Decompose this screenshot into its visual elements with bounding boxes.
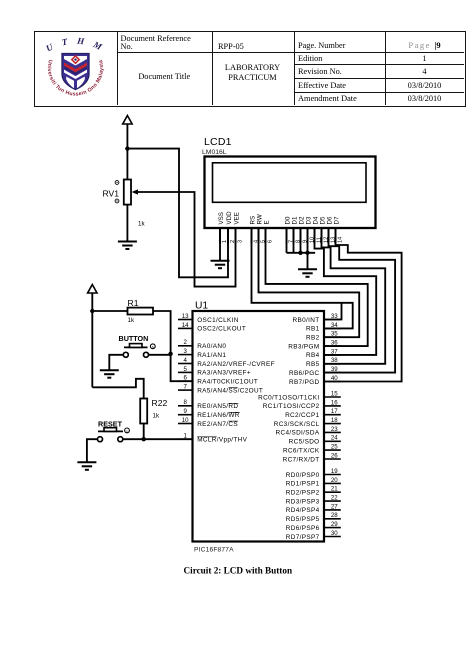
svg-text:RB1: RB1 bbox=[306, 326, 320, 333]
svg-text:RE2/AN7/CS: RE2/AN7/CS bbox=[197, 421, 238, 428]
svg-text:6: 6 bbox=[184, 375, 188, 382]
svg-text:38: 38 bbox=[331, 357, 338, 364]
svg-text:RB3/PGM: RB3/PGM bbox=[288, 343, 319, 350]
svg-text:LM016L: LM016L bbox=[202, 149, 227, 156]
svg-text:D0: D0 bbox=[284, 216, 291, 224]
svg-text:RB0/INT: RB0/INT bbox=[293, 317, 320, 324]
svg-text:3: 3 bbox=[237, 240, 243, 243]
svg-text:RB7/PGD: RB7/PGD bbox=[289, 379, 320, 386]
svg-text:E: E bbox=[263, 220, 270, 224]
svg-text:6: 6 bbox=[267, 240, 273, 243]
svg-text:5: 5 bbox=[184, 366, 188, 373]
svg-text:RV1: RV1 bbox=[103, 189, 120, 199]
svg-text:26: 26 bbox=[331, 452, 338, 459]
svg-text:RC4/SDI/SDA: RC4/SDI/SDA bbox=[276, 430, 320, 437]
svg-text:RC7/RX/DT: RC7/RX/DT bbox=[283, 456, 320, 463]
svg-text:RD1/PSP1: RD1/PSP1 bbox=[286, 481, 320, 488]
svg-text:7: 7 bbox=[184, 384, 188, 391]
svg-text:Circuit 2: LCD with Button: Circuit 2: LCD with Button bbox=[184, 566, 293, 576]
svg-text:1k: 1k bbox=[153, 413, 160, 420]
svg-text:RE0/AN5/RD: RE0/AN5/RD bbox=[197, 403, 238, 410]
svg-text:VEE: VEE bbox=[233, 212, 240, 224]
svg-text:RW: RW bbox=[256, 214, 263, 224]
svg-text:RC2/CCP1: RC2/CCP1 bbox=[285, 412, 320, 419]
svg-text:s: s bbox=[152, 345, 154, 349]
svg-text:RD0/PSP0: RD0/PSP0 bbox=[286, 472, 320, 479]
svg-text:20: 20 bbox=[331, 477, 338, 484]
svg-text:33: 33 bbox=[331, 313, 338, 320]
svg-text:36: 36 bbox=[331, 340, 338, 347]
svg-text:RB5: RB5 bbox=[306, 361, 320, 368]
svg-text:39: 39 bbox=[331, 366, 338, 373]
svg-text:RE1/AN6/WR: RE1/AN6/WR bbox=[197, 412, 240, 419]
svg-text:RS: RS bbox=[249, 216, 256, 225]
svg-text:RD4/PSP4: RD4/PSP4 bbox=[286, 507, 320, 514]
svg-text:28: 28 bbox=[331, 512, 338, 519]
svg-text:27: 27 bbox=[331, 503, 338, 510]
svg-text:PIC16F877A: PIC16F877A bbox=[194, 546, 234, 553]
svg-text:1: 1 bbox=[184, 433, 188, 440]
svg-text:RA4/T0CKI/C1OUT: RA4/T0CKI/C1OUT bbox=[197, 379, 258, 386]
svg-text:RD5/PSP5: RD5/PSP5 bbox=[286, 516, 320, 523]
svg-text:RA3/AN3/VREF+: RA3/AN3/VREF+ bbox=[197, 370, 251, 377]
svg-text:RD2/PSP2: RD2/PSP2 bbox=[286, 490, 320, 497]
svg-text:RD6/PSP6: RD6/PSP6 bbox=[286, 525, 320, 532]
svg-text:1k: 1k bbox=[138, 221, 145, 228]
svg-text:16: 16 bbox=[331, 399, 338, 406]
svg-text:D6: D6 bbox=[326, 216, 333, 224]
svg-text:17: 17 bbox=[331, 408, 338, 415]
svg-text:s: s bbox=[126, 429, 128, 433]
svg-text:RB4: RB4 bbox=[306, 352, 320, 359]
svg-text:RA2/AN2/VREF-/CVREF: RA2/AN2/VREF-/CVREF bbox=[197, 361, 275, 368]
svg-text:4: 4 bbox=[184, 357, 188, 364]
svg-text:R22: R22 bbox=[152, 398, 168, 408]
svg-text:RD7/PSP7: RD7/PSP7 bbox=[286, 534, 320, 541]
svg-text:22: 22 bbox=[331, 495, 338, 502]
svg-text:13: 13 bbox=[182, 313, 189, 320]
svg-text:25: 25 bbox=[331, 444, 338, 451]
svg-text:1: 1 bbox=[222, 240, 228, 243]
svg-text:D7: D7 bbox=[333, 216, 340, 224]
svg-text:BUTTON: BUTTON bbox=[119, 334, 149, 343]
svg-text:RA0/AN0: RA0/AN0 bbox=[197, 343, 226, 350]
svg-text:23: 23 bbox=[331, 426, 338, 433]
svg-text:RC5/SDO: RC5/SDO bbox=[289, 439, 320, 446]
svg-text:R1: R1 bbox=[128, 298, 139, 308]
svg-text:RB2: RB2 bbox=[306, 335, 320, 342]
svg-text:RD3/PSP3: RD3/PSP3 bbox=[286, 498, 320, 505]
svg-text:35: 35 bbox=[331, 331, 338, 338]
svg-text:15: 15 bbox=[331, 390, 338, 397]
svg-text:1k: 1k bbox=[128, 317, 135, 324]
svg-text:19: 19 bbox=[331, 468, 338, 475]
svg-text:10: 10 bbox=[182, 417, 189, 424]
svg-text:2: 2 bbox=[184, 339, 188, 346]
svg-text:MCLR/Vpp/THV: MCLR/Vpp/THV bbox=[197, 437, 247, 444]
svg-text:21: 21 bbox=[331, 486, 338, 493]
svg-text:D4: D4 bbox=[312, 216, 319, 224]
svg-text:RC0/T1OSO/T1CKI: RC0/T1OSO/T1CKI bbox=[258, 394, 319, 401]
svg-text:9: 9 bbox=[184, 408, 188, 415]
svg-text:RA5/AN4/SS/C2OUT: RA5/AN4/SS/C2OUT bbox=[197, 387, 263, 394]
svg-text:40: 40 bbox=[331, 375, 338, 382]
svg-text:D2: D2 bbox=[298, 216, 305, 224]
svg-text:RB6/PGC: RB6/PGC bbox=[289, 370, 320, 377]
svg-text:OSC1/CLKIN: OSC1/CLKIN bbox=[197, 317, 239, 324]
svg-text:RC3/SCK/SCL: RC3/SCK/SCL bbox=[274, 421, 320, 428]
svg-text:D5: D5 bbox=[319, 216, 326, 224]
svg-text:RC1/T1OSI/CCP2: RC1/T1OSI/CCP2 bbox=[263, 403, 320, 410]
svg-text:30: 30 bbox=[331, 530, 338, 537]
svg-text:RA1/AN1: RA1/AN1 bbox=[197, 352, 226, 359]
svg-text:37: 37 bbox=[331, 348, 338, 355]
svg-text:24: 24 bbox=[331, 435, 338, 442]
svg-text:LCD1: LCD1 bbox=[204, 136, 232, 148]
svg-text:14: 14 bbox=[182, 322, 189, 329]
svg-text:D3: D3 bbox=[305, 216, 312, 224]
svg-text:3: 3 bbox=[184, 348, 188, 355]
svg-text:D1: D1 bbox=[291, 216, 298, 224]
svg-text:OSC2/CLKOUT: OSC2/CLKOUT bbox=[197, 326, 246, 333]
svg-text:29: 29 bbox=[331, 521, 338, 528]
svg-text:8: 8 bbox=[184, 399, 188, 406]
svg-text:VDD: VDD bbox=[226, 211, 233, 225]
svg-text:RC6/TX/CK: RC6/TX/CK bbox=[283, 447, 320, 454]
svg-text:14: 14 bbox=[337, 237, 343, 243]
svg-text:VSS: VSS bbox=[218, 212, 225, 224]
svg-text:18: 18 bbox=[331, 417, 338, 424]
svg-text:34: 34 bbox=[331, 322, 338, 329]
svg-text:U1: U1 bbox=[195, 301, 208, 312]
